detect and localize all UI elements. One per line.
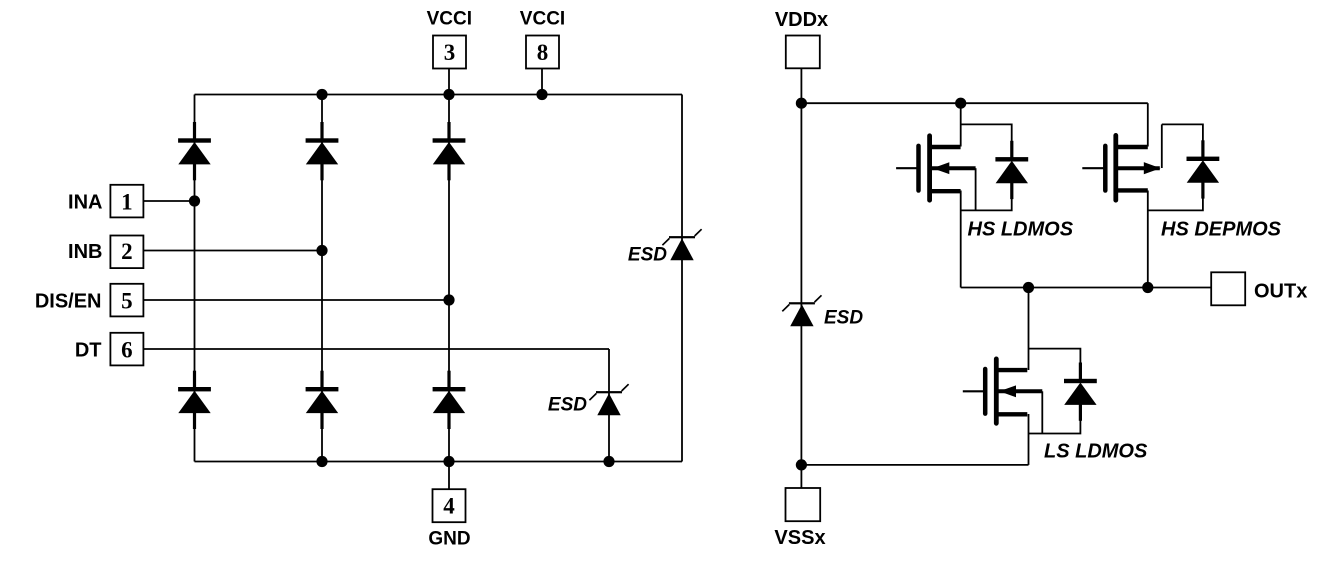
svg-text:VSSx: VSSx xyxy=(774,527,825,549)
pin box 5 DIS/EN xyxy=(110,284,143,317)
wire pin4 to rail xyxy=(448,462,450,490)
node rail-col2 xyxy=(316,89,327,100)
wire LS LDMOS diode top loop xyxy=(1029,349,1081,380)
node rail-pin8 xyxy=(536,89,547,100)
svg-text:5: 5 xyxy=(121,289,133,314)
diode D3 top column3 xyxy=(433,122,466,180)
wire LS LDMOS source down xyxy=(1028,414,1030,465)
svg-text:HS DEPMOS: HS DEPMOS xyxy=(1161,218,1282,240)
svg-text:ESD: ESD xyxy=(548,394,587,415)
node rail-col3/pin3 xyxy=(443,89,454,100)
node OUT-DEPMOS xyxy=(1142,282,1153,293)
pin box OUTx xyxy=(1211,272,1245,305)
svg-text:OUTx: OUTx xyxy=(1254,281,1307,303)
svg-text:ESD: ESD xyxy=(628,245,667,266)
wire ESD branch to bottom rail xyxy=(608,349,610,462)
wire pin8 to rail xyxy=(541,69,543,95)
wire HS DEPMOS diode bottom loop xyxy=(1148,183,1203,211)
svg-text:INA: INA xyxy=(68,192,102,214)
wire HS DEPMOS drain corner xyxy=(1147,103,1149,146)
wire HS DEPMOS source down xyxy=(1147,191,1149,288)
pin box 4 GND xyxy=(433,489,466,522)
svg-text:VDDx: VDDx xyxy=(775,9,828,31)
wire bottom VSS xyxy=(801,464,1028,466)
node OUT-LS xyxy=(1023,282,1034,293)
diode D2 top column2 xyxy=(306,122,339,180)
node VSS xyxy=(796,459,807,470)
transistor HS DEPMOS xyxy=(1082,135,1160,200)
pin box 8 VCCI xyxy=(526,36,559,69)
body diode HS LDMOS xyxy=(995,141,1028,199)
pin box 2 INB xyxy=(110,236,143,269)
svg-text:LS LDMOS: LS LDMOS xyxy=(1044,441,1148,463)
wire pin3 to rail xyxy=(448,69,450,95)
pin box 3 VCCI xyxy=(433,36,466,69)
wire HS LDMOS diode bottom loop xyxy=(961,183,1012,211)
wire right rail xyxy=(681,95,683,462)
wire column 3 xyxy=(448,95,450,462)
node GND-ESD xyxy=(603,456,614,467)
pin box VSSx xyxy=(786,488,821,521)
node GND-col3/pin4 xyxy=(443,456,454,467)
diode D1 top column1 xyxy=(178,122,211,180)
wire INB xyxy=(144,250,323,252)
ESD zener diode right schematic (thin style) xyxy=(782,295,821,326)
diode D4 bottom column1 xyxy=(178,371,211,429)
wire HS DEPMOS diode top loop xyxy=(1162,124,1203,158)
pin boxes right schematic xyxy=(786,36,1246,522)
wire VDDx to rail xyxy=(800,69,802,103)
body diode HS DEPMOS xyxy=(1187,140,1220,198)
wire HS LDMOS source down xyxy=(960,191,962,288)
wire LS LDMOS drain xyxy=(1028,288,1030,371)
wire HS LDMOS diode top loop xyxy=(961,124,1012,158)
diode D5 bottom column2 xyxy=(306,371,339,429)
wire HS DEPMOS body up xyxy=(1161,124,1163,168)
diode D6 bottom column3 xyxy=(433,371,466,429)
svg-text:4: 4 xyxy=(443,494,455,519)
svg-text:3: 3 xyxy=(444,40,456,65)
wire OUT rail xyxy=(961,287,1212,289)
body diode LS LDMOS xyxy=(1064,363,1097,421)
wire bottom rail GND xyxy=(195,461,683,463)
pin boxes left schematic xyxy=(110,36,559,523)
wire LS LDMOS body xyxy=(1041,391,1043,433)
svg-text:INB: INB xyxy=(68,241,102,263)
wire DIS/EN xyxy=(144,299,450,301)
wire INA xyxy=(144,200,195,202)
node INA xyxy=(189,195,200,206)
wire HS LDMOS drain xyxy=(960,103,962,146)
wire top rail VCCI xyxy=(195,94,683,96)
pin box 6 DT xyxy=(110,333,143,366)
svg-text:ESD: ESD xyxy=(824,308,863,329)
node GND-col2 xyxy=(316,456,327,467)
svg-text:HS LDMOS: HS LDMOS xyxy=(968,218,1074,240)
node VDD-HSLDMOS xyxy=(955,98,966,109)
svg-text:6: 6 xyxy=(121,338,133,363)
pin box 1 INA xyxy=(110,185,143,218)
svg-text:2: 2 xyxy=(121,239,133,264)
wire VSSx stub xyxy=(800,465,802,488)
svg-text:1: 1 xyxy=(121,190,133,215)
wire top rail VDD xyxy=(801,102,1147,104)
wire DT xyxy=(144,348,610,350)
svg-text:DIS/EN: DIS/EN xyxy=(35,291,102,313)
transistor HS LDMOS xyxy=(896,136,976,200)
node INB xyxy=(316,245,327,256)
node DIS/EN xyxy=(443,294,454,305)
ESD diode upper right rail xyxy=(662,229,701,260)
ESD diode lower (DT branch) xyxy=(589,384,628,415)
node VDD-left xyxy=(796,98,807,109)
svg-text:VCCI: VCCI xyxy=(520,9,565,30)
svg-text:DT: DT xyxy=(75,340,102,362)
pin box VDDx xyxy=(786,36,820,69)
svg-text:GND: GND xyxy=(428,529,470,550)
transistor LS LDMOS xyxy=(963,359,1043,423)
svg-text:8: 8 xyxy=(537,40,549,65)
wire HS LDMOS body xyxy=(975,168,977,210)
wire left rail xyxy=(800,103,802,465)
svg-text:VCCI: VCCI xyxy=(427,9,472,30)
wire column 1 xyxy=(194,95,196,462)
wire LS LDMOS diode bottom loop xyxy=(1029,405,1081,434)
wire column 2 xyxy=(321,95,323,462)
